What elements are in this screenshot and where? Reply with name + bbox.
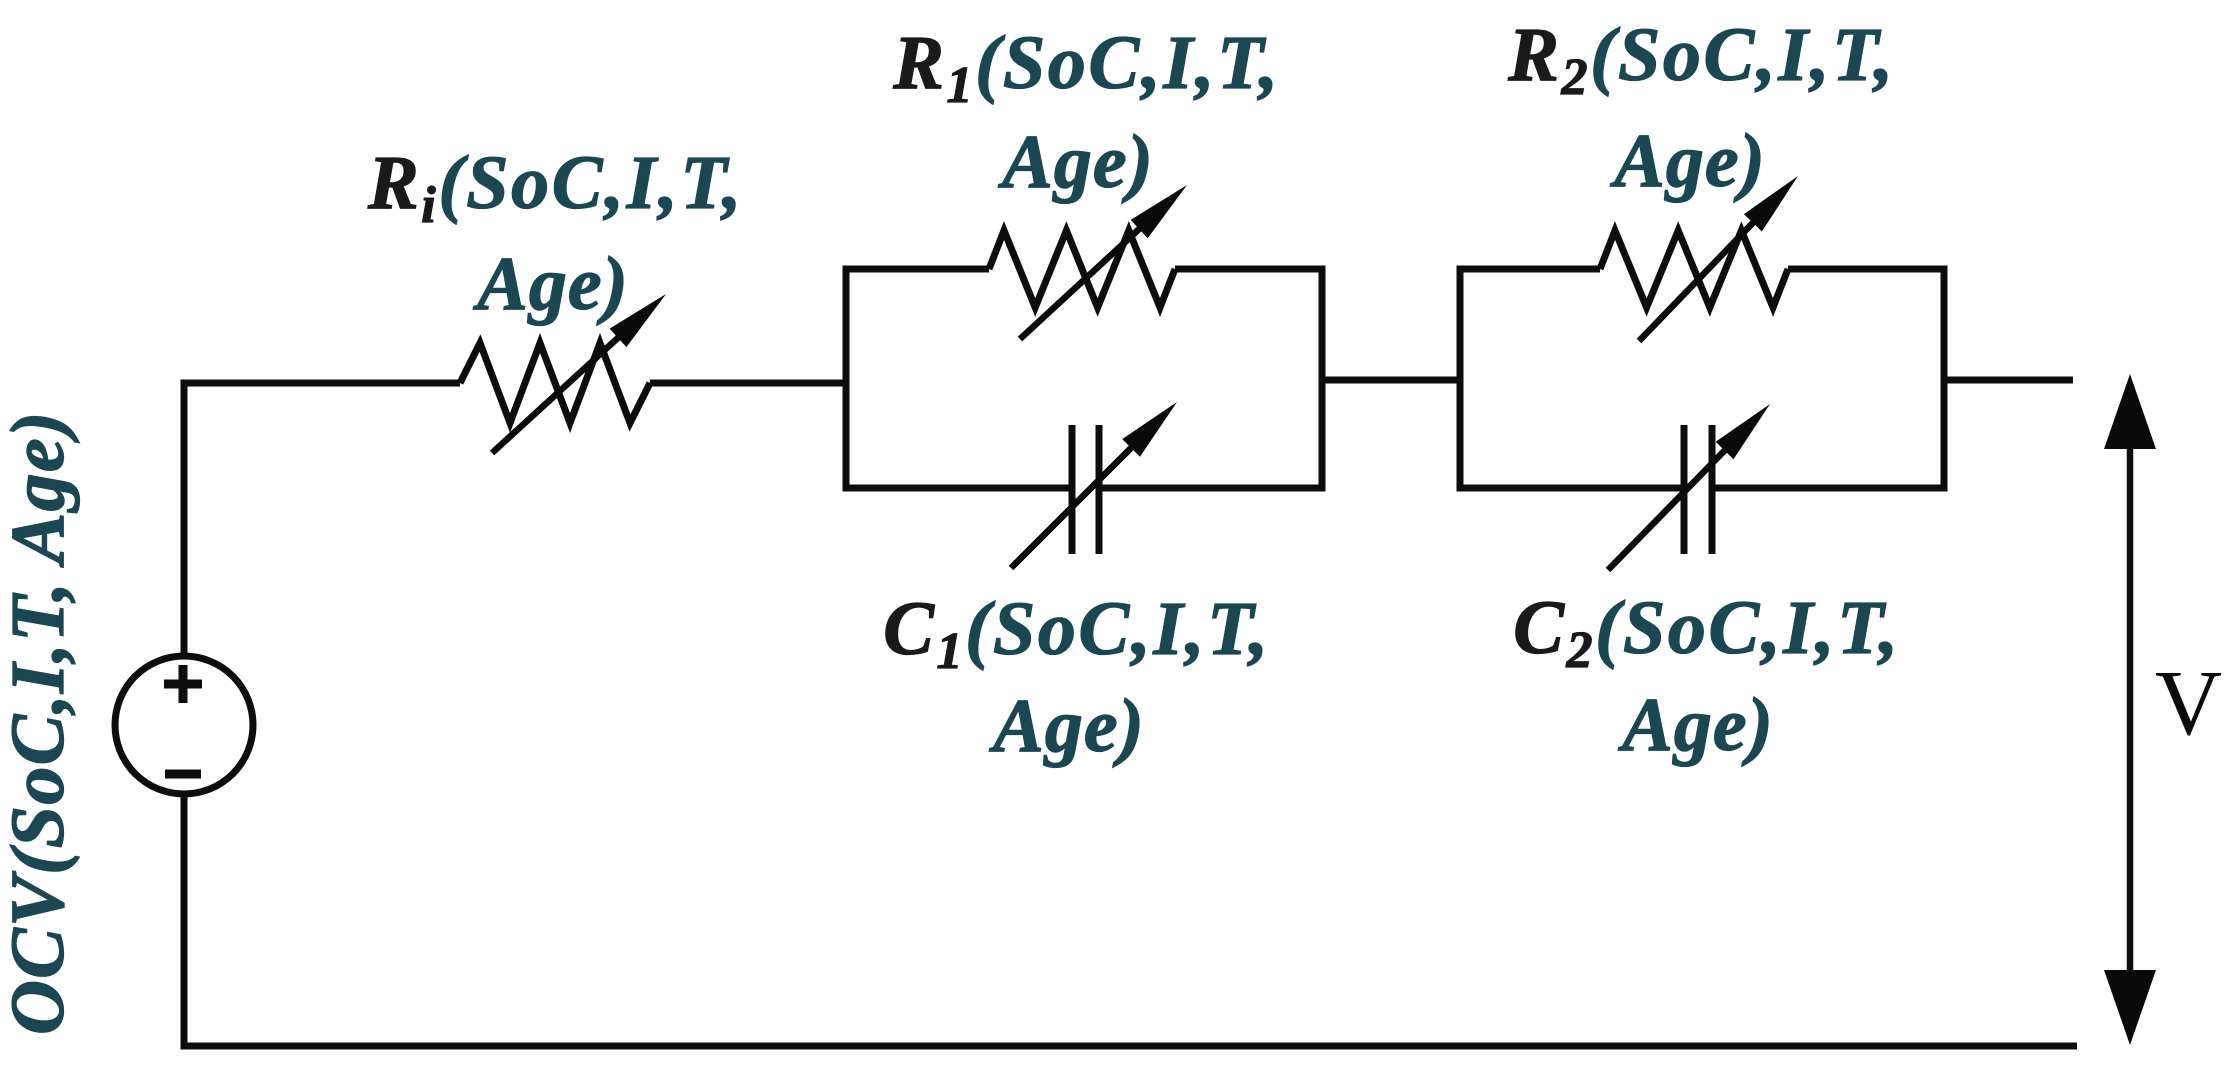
svg-text:Age): Age) [1618, 683, 1774, 767]
svg-text:V: V [2155, 652, 2222, 755]
svg-text:Age): Age) [473, 242, 629, 326]
svg-text:Age): Age) [989, 684, 1145, 768]
svg-text:Age): Age) [998, 120, 1154, 204]
svg-text:OCV(SoC,I,T, Age): OCV(SoC,I,T, Age) [0, 410, 80, 1035]
svg-text:Age): Age) [1610, 119, 1766, 203]
